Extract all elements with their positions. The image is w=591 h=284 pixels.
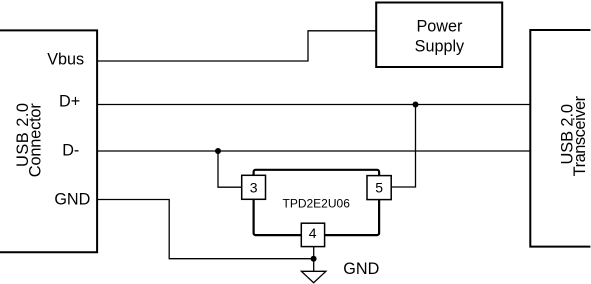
junction node D- [215,148,221,154]
svg-text:4: 4 [309,225,317,241]
junction node GND [311,256,317,262]
junction node D+ [413,102,419,108]
svg-text:Vbus: Vbus [47,50,84,68]
pin 5 [367,176,391,200]
svg-text:3: 3 [250,179,258,195]
svg-text:GND: GND [54,190,90,208]
ground symbol [301,271,326,282]
svg-text:Power: Power [416,17,462,35]
wire D+ to pin 5 [391,105,416,188]
USB 2.0 Transceiver title [559,95,589,176]
pin 3 [242,175,266,199]
svg-text:GND: GND [343,260,379,278]
Power Supply label [415,17,465,55]
ESD protection diode TPD2E2U06 U1 [254,170,380,235]
USB 2.0 Connector box J1 [0,30,97,252]
wire D+ [97,104,531,106]
wire Vbus to Power Supply [97,31,377,61]
pin 4 [301,223,324,246]
wire GND from connector [97,200,314,259]
svg-text:TPD2E2U06: TPD2E2U06 [283,197,351,211]
svg-text:D-: D- [62,141,79,159]
wire pin 4 to ground [313,247,315,272]
wire D- to pin 3 [218,151,242,187]
USB 2.0 Connector title [14,103,45,178]
USB 2.0 Transceiver box [530,30,590,247]
svg-text:5: 5 [375,180,383,196]
svg-text:Supply: Supply [415,37,465,55]
Power Supply box [376,3,502,68]
svg-text:Transceiver: Transceiver [571,95,589,176]
wire D- [97,150,531,152]
svg-text:Connector: Connector [27,103,45,178]
svg-text:D+: D+ [59,92,80,110]
